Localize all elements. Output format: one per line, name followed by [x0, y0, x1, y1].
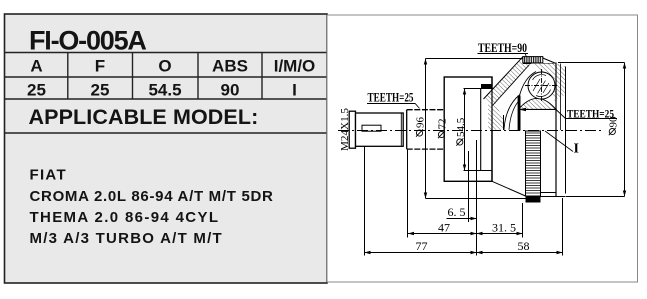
leader I — [545, 131, 573, 152]
bell right face mid — [560, 64, 562, 131]
svg-text:I/M/O: I/M/O — [274, 57, 316, 76]
label dia54.5 rotated — [455, 117, 467, 145]
svg-text:TEETH=25: TEETH=25 — [368, 90, 414, 104]
extension line 58 right — [562, 198, 564, 256]
svg-text:I: I — [292, 81, 297, 100]
pilot face vertical — [480, 89, 482, 171]
dia 96 extension top — [426, 58, 523, 60]
cage thick line — [518, 96, 521, 131]
bell top base line under teeth — [523, 63, 556, 65]
svg-text:A: A — [30, 57, 42, 76]
table column line 1 — [67, 53, 69, 100]
boot groove ring — [444, 77, 492, 181]
svg-text:THEMA 2.0 86-94 4CYL: THEMA 2.0 86-94 4CYL — [30, 209, 220, 226]
pilot extension top — [464, 88, 493, 90]
table line under title — [5, 52, 328, 54]
table line under values — [5, 98, 328, 100]
ball inner arc top — [533, 75, 547, 80]
svg-text:77: 77 — [416, 239, 428, 253]
bell front wall edge — [503, 115, 505, 130]
bell cavity inner arc — [509, 100, 520, 130]
boot groove ring right edge — [491, 77, 493, 181]
ball crosshair horizontal — [525, 85, 558, 87]
table column line 3 — [197, 53, 199, 100]
svg-text:6. 5: 6. 5 — [448, 205, 466, 219]
dimension 58 line — [477, 252, 563, 254]
cage arc left of ball — [520, 72, 537, 96]
svg-text:54.5: 54.5 — [148, 81, 181, 100]
extension line 77 left — [364, 147, 366, 256]
svg-text:47: 47 — [438, 221, 450, 235]
dia 96 measure line — [425, 59, 427, 199]
inner race dome hatched — [519, 98, 557, 109]
bell right chamfer top — [543, 58, 556, 64]
svg-text:90: 90 — [221, 81, 240, 100]
svg-text:M/3 A/3 TURBO A/T M/T: M/3 A/3 TURBO A/T M/T — [30, 230, 223, 247]
leader TEETH=90 — [525, 54, 527, 57]
pilot extension bottom — [464, 170, 493, 172]
svg-text:M24X1.5: M24X1.5 — [339, 108, 351, 151]
threaded shaft body — [356, 113, 404, 146]
label dia96 rotated — [415, 117, 427, 137]
table line under APPLICABLE MODEL — [5, 132, 328, 134]
svg-text:FIAT: FIAT — [30, 167, 67, 184]
dia 96 extension bottom — [426, 198, 526, 200]
bell front wall hatched — [488, 100, 504, 130]
bell right face outer — [555, 63, 557, 197]
svg-text:F: F — [95, 57, 105, 76]
ball inner hatch marks — [533, 79, 549, 94]
bell right face inner — [565, 67, 567, 194]
svg-text:54.5: 54.5 — [455, 117, 467, 137]
ball circle — [528, 72, 555, 99]
svg-text:CROMA 2.0L 86-94 A/T M/T 5DR: CROMA 2.0L 86-94 A/T M/T 5DR — [30, 188, 274, 205]
svg-text:58: 58 — [518, 239, 530, 253]
label dia90 rotated — [607, 116, 619, 135]
wedge right of ball hatched — [531, 64, 556, 105]
pilot top black bar — [481, 84, 492, 89]
dia 90 extension top — [558, 62, 625, 64]
drawing panel frame — [327, 15, 638, 282]
dia 90 extension bottom — [566, 196, 625, 198]
ball inner arc bottom — [536, 90, 551, 97]
dimension 31.5 line — [477, 233, 523, 235]
label dia72 rotated — [437, 119, 449, 139]
main centerline — [338, 130, 602, 132]
dimension 6.5 arrow — [471, 217, 477, 220]
ABS ring teeth block TEETH=90 — [523, 57, 543, 63]
rim strip hatched — [556, 64, 565, 100]
dimension 31.5 arrows — [477, 232, 523, 235]
ball crosshair vertical — [541, 69, 543, 102]
dia 90 dimension line — [624, 63, 626, 197]
dia 96 arrows — [424, 59, 427, 199]
dimension 58 arrows — [477, 251, 563, 254]
svg-text:APPLICABLE MODEL:: APPLICABLE MODEL: — [29, 105, 259, 129]
dimension 77 arrows — [365, 251, 477, 254]
svg-text:FI-O-005A: FI-O-005A — [29, 26, 146, 56]
dimension 47 arrows — [408, 232, 477, 235]
shaft end inner line — [400, 113, 402, 146]
svg-text:O: O — [158, 57, 171, 76]
svg-text:96: 96 — [415, 117, 427, 129]
svg-text:31. 5: 31. 5 — [492, 221, 516, 235]
table column line 2 — [132, 53, 134, 100]
svg-text:I: I — [574, 142, 579, 157]
svg-text:90: 90 — [607, 116, 619, 128]
dimension 47 line — [408, 233, 477, 235]
dimension 77 line — [365, 252, 477, 254]
inner race spline band bottom TEETH=25 — [526, 131, 541, 203]
table column line 4 — [261, 53, 263, 100]
svg-text:ABS: ABS — [212, 57, 248, 76]
svg-text:TEETH=90: TEETH=90 — [478, 41, 527, 55]
bell shoulder outer edge — [484, 57, 523, 99]
leader TEETH=25 left — [415, 103, 420, 108]
spline section TEETH=25 — [407, 110, 445, 149]
svg-text:25: 25 — [27, 81, 46, 100]
extension line shared 476.8 — [476, 140, 478, 256]
bell bottom diagonal — [492, 181, 526, 196]
svg-text:72: 72 — [437, 119, 449, 130]
thread slot — [362, 125, 381, 131]
leader TEETH=25 right — [521, 110, 566, 120]
dia 54.5 arrows — [463, 89, 466, 171]
bell shoulder inner edge — [493, 65, 530, 106]
extension line 31.5 right — [522, 203, 524, 238]
underline TEETH=90 — [478, 53, 529, 55]
bell bottom edge — [541, 196, 566, 198]
extension line 6.5 left — [468, 151, 470, 222]
bell cavity left arc — [504, 95, 520, 130]
underline TEETH=25 right — [566, 118, 617, 120]
underline TEETH=25 left — [367, 103, 415, 105]
leader arrow TEETH=25 right — [519, 108, 526, 112]
bell shoulder hatched band — [485, 57, 532, 106]
dia 54.5 measure line — [464, 89, 466, 171]
extension line 47 left — [407, 149, 409, 237]
left info panel background — [5, 14, 328, 283]
threaded shaft tip cap — [349, 111, 355, 148]
bell mouth bottom edge — [541, 192, 557, 194]
svg-text:25: 25 — [91, 81, 110, 100]
dimension 6.5 line — [447, 218, 477, 220]
dia 90 arrows — [623, 63, 626, 197]
table line under header — [5, 76, 328, 78]
